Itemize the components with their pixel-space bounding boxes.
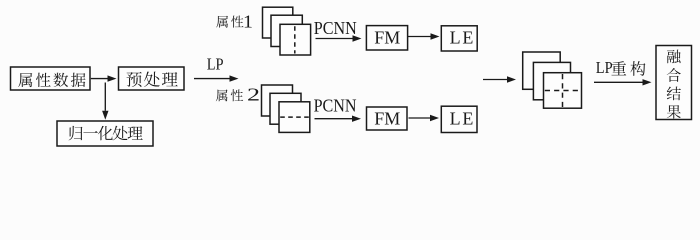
arrow LP decompose [194,75,239,81]
box LE (top) [441,26,477,51]
box 预处理 [119,67,185,90]
box 属性数据 [11,67,91,90]
arrow merge into fused stack [483,76,516,82]
svg-text:1: 1 [243,12,253,32]
svg-text:FM: FM [374,28,400,48]
box 归一化处理 [57,121,153,146]
svg-text:FM: FM [374,109,400,129]
label 预处理 [127,72,178,87]
dashed horizontal split (bottom stack) [280,116,309,118]
svg-text:LP: LP [207,55,224,73]
label 重构 [611,61,645,76]
dashed horizontal split (fused stack) [545,90,581,92]
dashed vertical split (fused stack) [562,74,564,107]
svg-text:2: 2 [247,84,260,104]
svg-text:LE: LE [450,109,476,129]
stack fused pyramid layers [523,52,582,108]
arrow FM→LE (bottom) [409,115,440,121]
label 融合结果 (vertical) [667,50,681,119]
arrow LP重构→融合结果 [594,79,652,85]
box FM (top) [366,26,407,50]
dashed vertical split (top stack) [294,26,296,53]
box FM (bottom) [367,107,408,130]
arrow FM→LE (top) [408,33,440,39]
svg-text:LE: LE [450,28,476,48]
arrow 属性1→FM [316,35,362,41]
arrow 属性2→FM [315,116,362,122]
label 属性2 (cjk part) [216,89,243,101]
box LE (bottom) [441,106,477,132]
arrow down to 归一化处理 [102,83,108,120]
arrow 属性数据→预处理 [91,75,117,81]
svg-text:PCNN: PCNN [314,18,357,38]
box 融合结果 [656,46,692,120]
svg-text:PCNN: PCNN [314,96,357,116]
stack 属性2 pyramid layers [262,85,310,132]
label 属性1 (cjk part) [216,16,243,28]
label 属性数据 [18,73,85,87]
stack 属性1 pyramid layers [263,7,311,55]
label 归一化处理 [69,126,143,141]
svg-text:LP: LP [596,59,613,77]
